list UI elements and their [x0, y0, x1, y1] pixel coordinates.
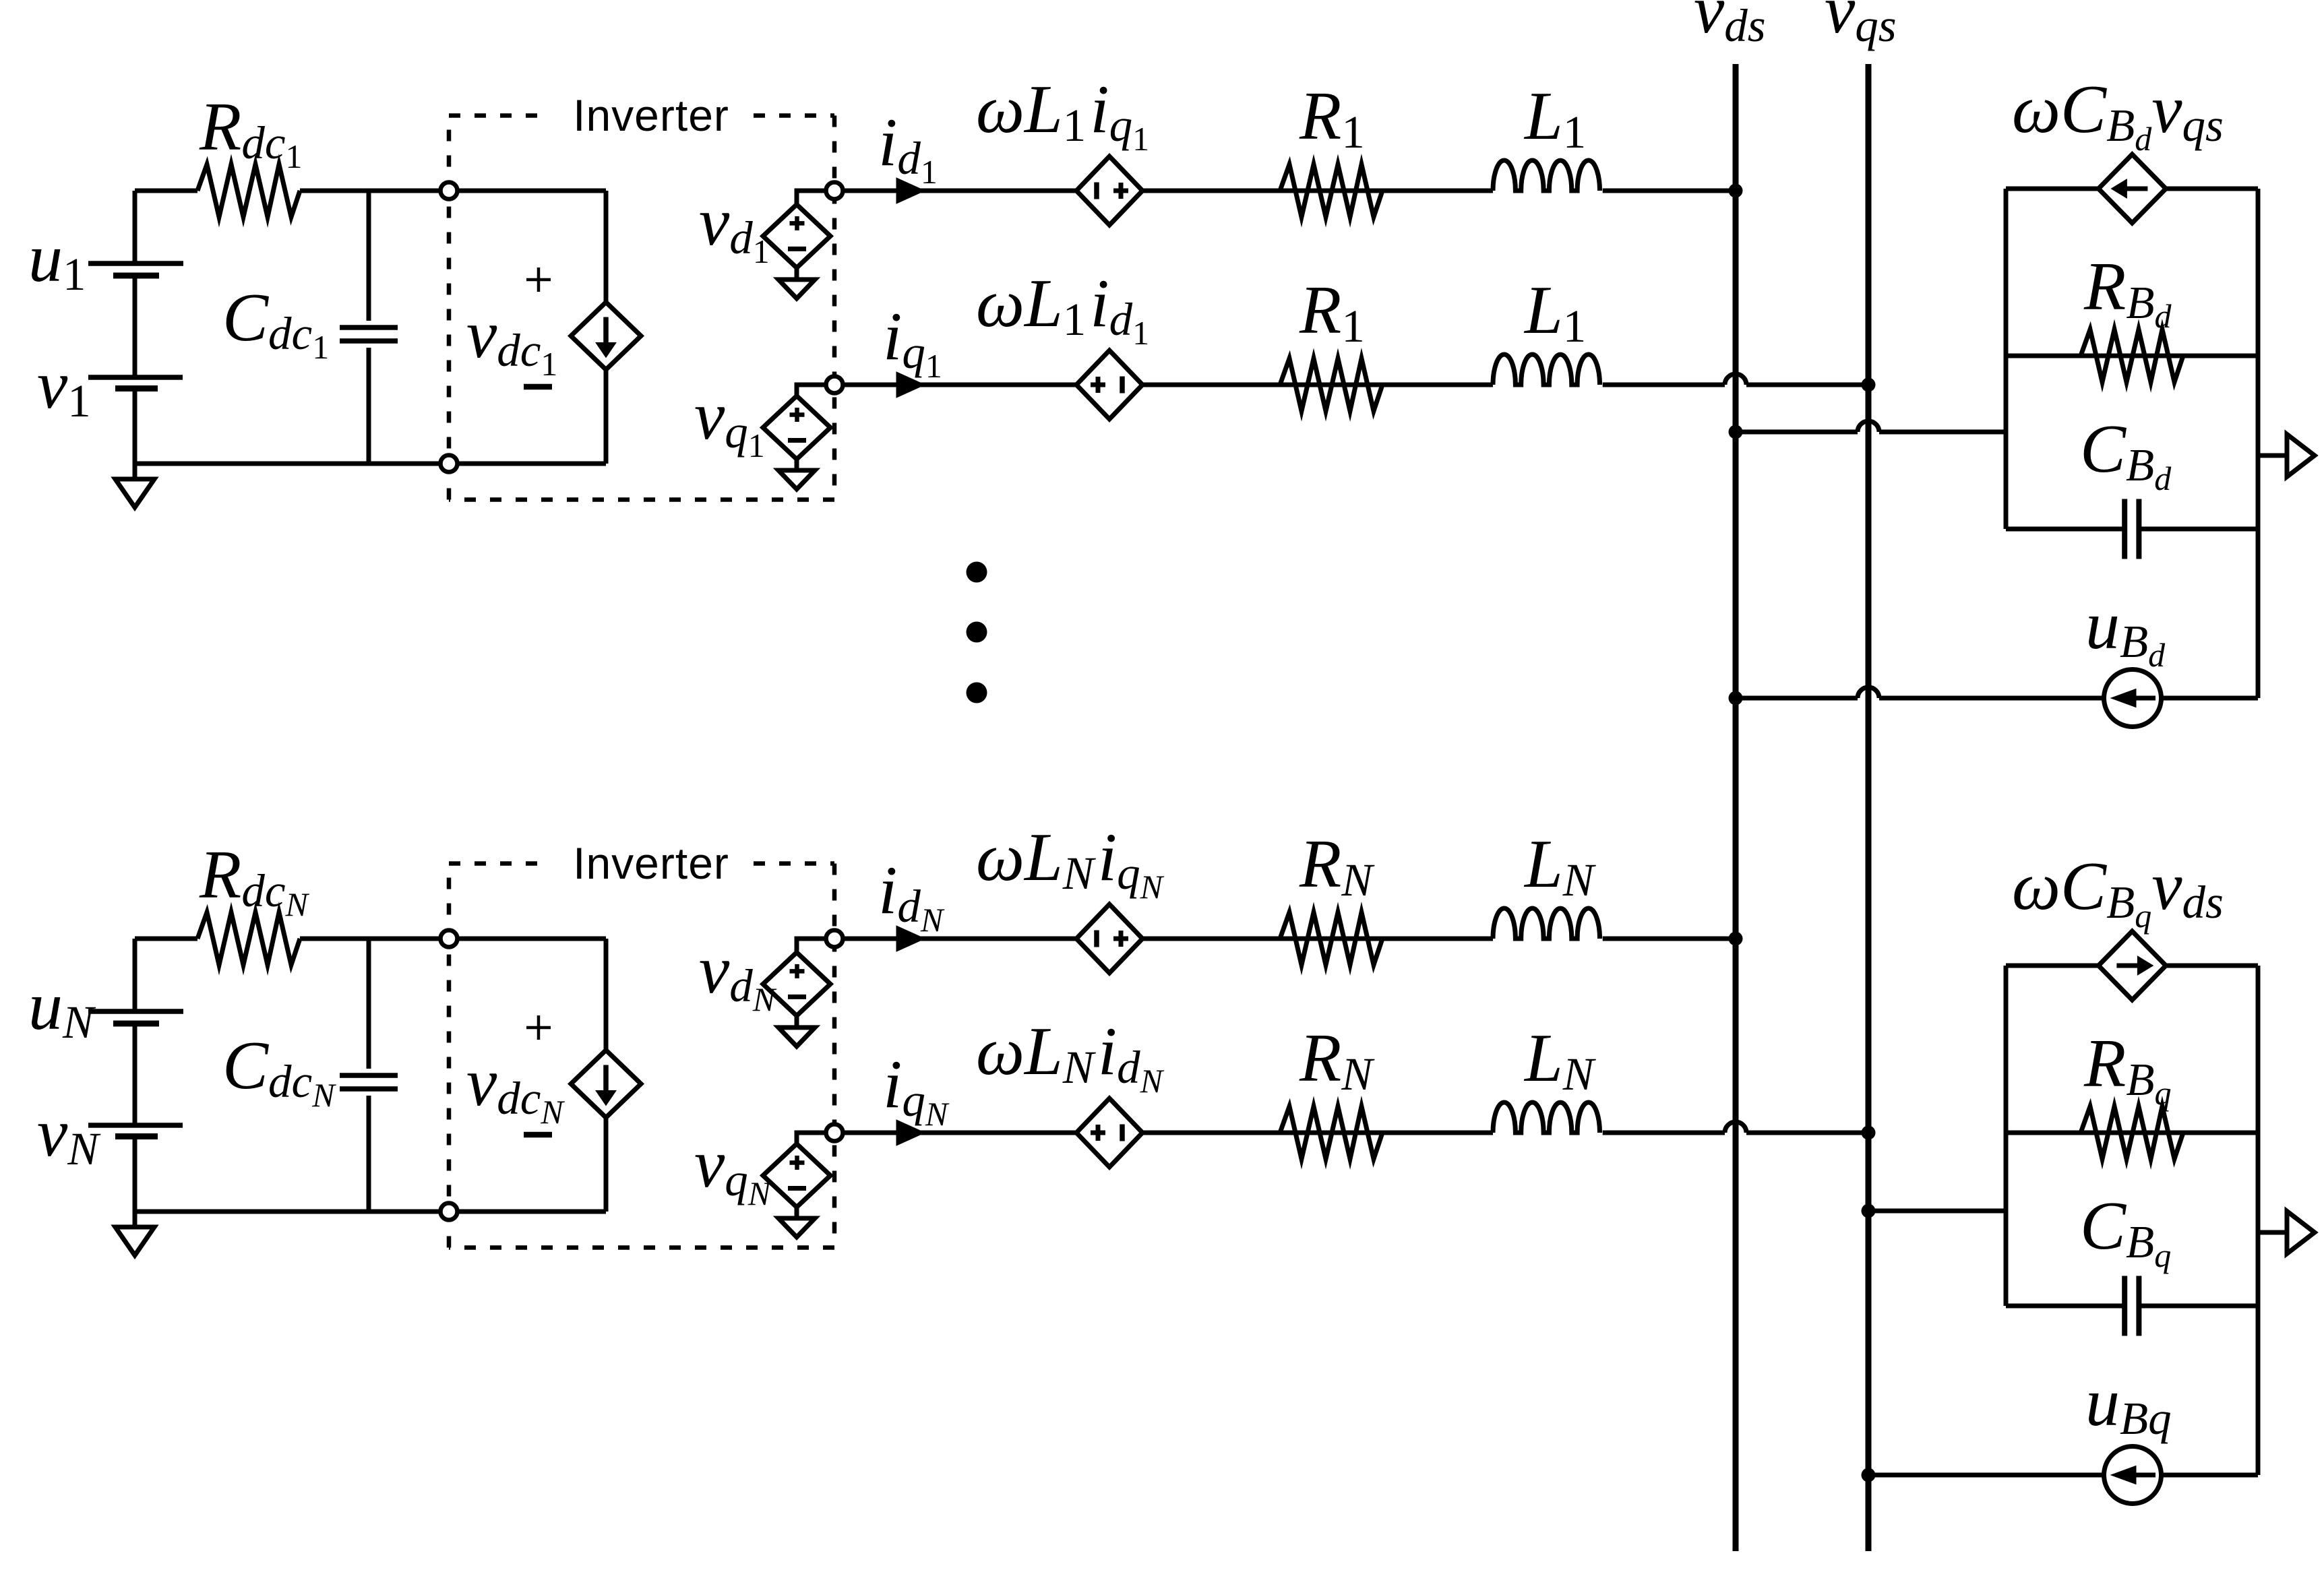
resistor RN (d row)	[1280, 912, 1382, 965]
ground	[795, 268, 799, 280]
wire dc bottom rail (unit N)	[135, 1210, 606, 1214]
wire battery top (unit 1)	[135, 189, 197, 193]
inverter dashed box unit 1	[449, 113, 545, 118]
wire vqs to RBq block	[1868, 1209, 2006, 1214]
wire	[1603, 383, 1725, 387]
wire battery column (unit N)	[133, 939, 137, 1212]
ground	[795, 1015, 799, 1028]
ground	[795, 460, 799, 471]
node vqs bus line	[1866, 64, 1872, 1551]
output arrow (Bd)	[2258, 453, 2287, 458]
wire to vqs junction	[1746, 1131, 1868, 1135]
wire iq1 row	[834, 383, 1493, 387]
battery v1	[130, 377, 140, 389]
wire dc top rail (unit 1)	[300, 189, 606, 193]
dependent voltage source vq1	[797, 385, 834, 396]
resistor RBd	[2081, 329, 2183, 382]
dependent current source wCBq	[2098, 931, 2166, 1000]
inductor L1 (d row)	[1493, 160, 1599, 191]
svg-text:Inverter: Inverter	[573, 90, 729, 140]
svg-text:vds: vds	[1694, 0, 1766, 51]
inverter dashed box unit N	[449, 861, 545, 866]
dependent voltage source vqN	[797, 1133, 834, 1144]
resistor Rdc1	[197, 164, 300, 217]
current arrow id1	[896, 178, 925, 203]
dependent source wLNiqN	[1076, 904, 1142, 973]
node vds bus line	[1733, 64, 1739, 1551]
current arrow idN	[896, 926, 925, 951]
dependent source wL1iq1	[1076, 156, 1142, 225]
resistor RN (q row)	[1280, 1106, 1382, 1159]
wire LN to vds bus	[1603, 937, 1736, 941]
battery uN	[130, 1011, 140, 1024]
current source uBd	[2104, 670, 2162, 727]
wire battery column (unit 1)	[133, 191, 137, 464]
bus load block Bd rails	[2004, 189, 2009, 529]
dependent voltage source vdN	[797, 939, 834, 952]
dependent voltage source vd1	[797, 191, 834, 204]
node terminal id1	[826, 183, 843, 199]
capacitor Cdc1	[367, 191, 371, 321]
dependent current source vdc1	[604, 191, 609, 464]
capacitor CBq	[2122, 1276, 2127, 1336]
resistor R1 (d row)	[1280, 164, 1382, 217]
svg-text:Inverter: Inverter	[573, 838, 729, 888]
node terminal iqN	[826, 1125, 843, 1141]
junction dot idN/vds	[1729, 932, 1743, 946]
ellipsis dots	[967, 562, 987, 583]
resistor RdcN	[197, 912, 300, 965]
inductor LN (q row)	[1493, 1102, 1599, 1133]
wire dc top rail (unit N)	[300, 937, 606, 941]
inductor LN (d row)	[1493, 908, 1599, 939]
current arrow iq1	[896, 372, 925, 398]
ground	[795, 1207, 799, 1219]
battery vN	[130, 1125, 140, 1137]
node terminals unit 1	[441, 183, 458, 199]
capacitor CBd	[2122, 499, 2127, 559]
wire dc bottom rail (unit 1)	[135, 462, 606, 466]
wire hop over vds	[1725, 1122, 1746, 1133]
node terminal idN	[826, 931, 843, 947]
wire	[1603, 1131, 1725, 1135]
dependent source wLNidN	[1076, 1098, 1142, 1167]
ground	[133, 1212, 137, 1227]
ground	[133, 464, 137, 479]
wire iqN row	[834, 1131, 1493, 1135]
current arrow iqN	[896, 1120, 925, 1145]
dependent current source vdcN	[604, 939, 609, 1212]
capacitor CdcN	[367, 939, 371, 1069]
dependent current source wCBd	[2098, 154, 2166, 223]
battery u1	[130, 263, 140, 276]
node terminals unit N	[441, 931, 458, 947]
wire idN row	[834, 937, 1493, 941]
resistor RBq	[2081, 1106, 2183, 1159]
svg-text:vqs: vqs	[1825, 0, 1897, 51]
wire L1 to vds bus	[1603, 189, 1736, 193]
bus load block Bq rails	[2004, 966, 2009, 1306]
output arrow (Bq)	[2258, 1230, 2287, 1235]
wire uBd row	[1736, 696, 1858, 701]
wire hop over vds	[1725, 374, 1746, 385]
wire uBq row	[1868, 1473, 2258, 1478]
dependent source wL1id1	[1076, 350, 1142, 419]
wire id1 row	[834, 189, 1493, 193]
resistor R1 (q row)	[1280, 358, 1382, 411]
wire to vqs junction	[1746, 383, 1868, 387]
inductor L1 (q row)	[1493, 354, 1599, 385]
wire vds to RBd block	[1736, 430, 1858, 435]
current source uBq	[2104, 1447, 2162, 1504]
node terminal iq1	[826, 377, 843, 394]
wire battery top (unit N)	[135, 937, 197, 941]
junction dot id1/vds	[1729, 184, 1743, 198]
